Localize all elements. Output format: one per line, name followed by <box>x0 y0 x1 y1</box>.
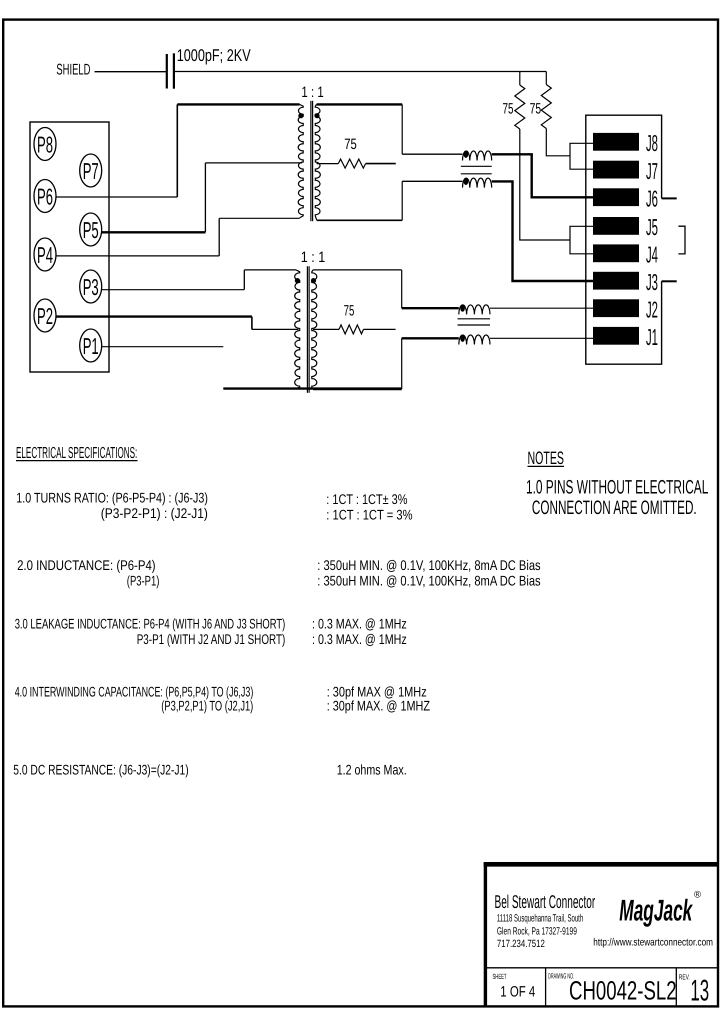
choke L1 core <box>461 166 492 174</box>
wire SHIELD-C1 <box>95 71 167 73</box>
svg-text:J1: J1 <box>646 324 658 350</box>
svg-text:1.0 PINS WITHOUT ELECTRICAL: 1.0 PINS WITHOUT ELECTRICAL <box>526 477 708 499</box>
svg-text:®: ® <box>694 890 701 901</box>
spec text line 8 <box>317 573 540 589</box>
heading NOTES <box>528 448 565 468</box>
wire P2 to T2 primary center tap <box>56 317 298 330</box>
wire P1 stub <box>102 346 224 348</box>
svg-text:J6: J6 <box>646 186 658 212</box>
svg-text:J5: J5 <box>646 214 658 240</box>
wire T1 secondary right edge bottom <box>401 181 403 220</box>
wire choke L1 top to J6 <box>492 154 593 197</box>
spec text line 15 <box>327 684 427 700</box>
svg-text:P7: P7 <box>83 158 99 184</box>
svg-text:(P3,P2,P1) TO (J2,J1): (P3,P2,P1) TO (J2,J1) <box>161 698 253 714</box>
pin J6 <box>593 186 658 212</box>
heading ELECTRICAL SPECIFICATIONS <box>16 445 138 462</box>
svg-text:P5: P5 <box>83 217 99 243</box>
field REV <box>679 973 709 1008</box>
wire T1 to choke L1 top <box>402 153 462 155</box>
pin J4 <box>593 242 658 268</box>
phone line <box>497 938 545 950</box>
svg-text:MagJack: MagJack <box>619 895 693 928</box>
pin P7 <box>80 154 102 187</box>
pin J5 <box>593 214 658 240</box>
svg-text:CH0042-SL2: CH0042-SL2 <box>569 975 677 1005</box>
pin P4 <box>34 238 56 271</box>
wire P3 to T2 primary top <box>102 270 296 290</box>
wire T2 secondary top <box>313 269 402 271</box>
svg-text:P2: P2 <box>37 303 53 329</box>
svg-text:2.0 INDUCTANCE: (P6-P4): 2.0 INDUCTANCE: (P6-P4) <box>17 557 156 573</box>
choke L1 top winding <box>463 151 492 161</box>
pin J7 <box>593 158 658 184</box>
svg-text:http://www.stewartconnector.co: http://www.stewartconnector.com <box>593 936 713 948</box>
spec text line 12 <box>312 631 407 647</box>
svg-text:1 OF 4: 1 OF 4 <box>500 983 535 1000</box>
note text line 1 <box>526 477 708 499</box>
choke L2 core <box>458 319 491 325</box>
pin P6 <box>34 180 56 213</box>
choke L2 top winding <box>459 305 490 315</box>
capacitor C1 <box>167 53 174 88</box>
wire R2 to bracket J8-J7 <box>546 129 570 156</box>
pin P1 <box>80 329 102 362</box>
title block frame <box>484 862 717 1006</box>
node SHIELD <box>56 62 90 79</box>
pin J8 <box>593 130 658 156</box>
wire J3 stub <box>662 280 677 282</box>
svg-text:P3-P1 (WITH J2 AND J1 SHORT): P3-P1 (WITH J2 AND J1 SHORT) <box>137 631 286 647</box>
value R1 75 <box>503 101 514 118</box>
spec text line 13 <box>15 684 254 700</box>
wire shield net to R1 R2 <box>174 71 547 73</box>
wire T1 secondary bottom <box>317 219 403 221</box>
resistor R3 75 (T1 secondary) <box>317 159 396 168</box>
svg-text:P8: P8 <box>37 131 53 157</box>
pin P3 <box>80 270 102 303</box>
svg-text:ELECTRICAL SPECIFICATIONS:: ELECTRICAL SPECIFICATIONS: <box>16 445 137 462</box>
connector J outline <box>586 115 662 364</box>
spec text line 5 <box>17 557 156 573</box>
svg-text:SHIELD: SHIELD <box>56 62 90 79</box>
transformer T1 ratio label 1 : 1 <box>301 84 323 101</box>
pin P2 <box>34 299 56 332</box>
svg-text:(P3-P1): (P3-P1) <box>127 573 160 589</box>
field DRAWING NO <box>548 972 677 1006</box>
pin J2 <box>593 297 658 323</box>
url <box>593 936 713 948</box>
transformer T2 <box>295 266 317 393</box>
spec text line 16 <box>327 698 431 714</box>
pin J1 <box>593 324 658 350</box>
spec text line 18 <box>337 762 407 778</box>
address line 1 <box>497 913 583 925</box>
spec text line 10 <box>137 631 286 647</box>
svg-text:J4: J4 <box>646 242 658 268</box>
svg-text:717.234.7512: 717.234.7512 <box>497 938 545 950</box>
spec text line 7 <box>317 557 540 573</box>
svg-text:: 1CT : 1CT = 3%: : 1CT : 1CT = 3% <box>326 507 412 523</box>
junction bracket J8 J7 <box>570 143 594 169</box>
resistor R2 75 <box>541 72 551 129</box>
svg-text:5.0 DC RESISTANCE: (J6-J3)=(J2: 5.0 DC RESISTANCE: (J6-J3)=(J2-J1) <box>13 762 188 778</box>
svg-text:J2: J2 <box>646 297 658 323</box>
spec text line 9 <box>15 616 286 632</box>
svg-text:1000pF; 2KV: 1000pF; 2KV <box>177 46 251 65</box>
wire T2 secondary right edge top <box>401 270 403 308</box>
spec text line 17 <box>13 762 188 778</box>
svg-text:75: 75 <box>344 302 355 319</box>
svg-text:: 0.3 MAX. @ 1MHz: : 0.3 MAX. @ 1MHz <box>312 616 407 632</box>
wire T1 secondary right edge top <box>401 104 403 154</box>
transformer T2 ratio label 1 : 1 <box>301 249 326 266</box>
spec text line 1 <box>16 490 208 506</box>
wire T2 secondary bottom <box>313 388 402 390</box>
svg-text:1.0 TURNS RATIO: (P6-P5-P4) :: 1.0 TURNS RATIO: (P6-P5-P4) : (J6-J3) <box>16 490 208 506</box>
wire R1 to bracket J5-J4 <box>520 129 570 240</box>
svg-text:P1: P1 <box>83 333 99 359</box>
svg-text:75: 75 <box>530 101 542 118</box>
svg-text:3.0 LEAKAGE INDUCTANCE: P6-P4: 3.0 LEAKAGE INDUCTANCE: P6-P4 (WITH J6 A… <box>15 616 286 632</box>
logo MagJack <box>619 890 701 928</box>
svg-text:11118 Susquehanna Trail, South: 11118 Susquehanna Trail, South <box>497 913 583 925</box>
value R3 75 <box>344 136 357 153</box>
svg-text:P3: P3 <box>83 274 99 300</box>
svg-text:J8: J8 <box>646 130 658 156</box>
choke L2 bottom winding <box>459 335 490 345</box>
wire P6 to T1 primary top <box>56 104 300 197</box>
address line 2 <box>497 926 577 938</box>
wire choke L2 bottom to J1 <box>490 337 593 339</box>
svg-text:NOTES: NOTES <box>528 448 565 468</box>
svg-text:: 0.3 MAX. @ 1MHz: : 0.3 MAX. @ 1MHz <box>312 631 407 647</box>
wire T2 to choke L2 top <box>402 307 459 309</box>
wire P4 to T1 primary bottom <box>56 218 300 256</box>
wire T1 secondary top <box>317 103 403 105</box>
note text line 2 <box>532 497 697 519</box>
junction bracket J5 J4 right <box>678 226 685 254</box>
choke L1 bottom winding <box>463 178 492 188</box>
junction bracket J5 J4 <box>570 226 594 254</box>
svg-text:75: 75 <box>344 136 357 153</box>
spec text line 4 <box>326 507 412 523</box>
svg-text:Bel Stewart Connector: Bel Stewart Connector <box>495 891 596 912</box>
svg-text:: 350uH MIN. @ 0.1V, 100KHz, 8: : 350uH MIN. @ 0.1V, 100KHz, 8mA DC Bias <box>317 573 540 589</box>
svg-text:P6: P6 <box>37 183 53 209</box>
svg-text:P4: P4 <box>37 242 53 268</box>
svg-text:Glen Rock, Pa 17327-9199: Glen Rock, Pa 17327-9199 <box>497 926 577 938</box>
svg-text:(P3-P2-P1) : (J2-J1): (P3-P2-P1) : (J2-J1) <box>101 505 208 521</box>
spec text line 3 <box>326 491 407 507</box>
svg-text:REV.: REV. <box>679 973 690 982</box>
resistor R4 75 (T2 secondary) <box>313 325 396 334</box>
svg-text:75: 75 <box>503 101 514 118</box>
svg-text:13: 13 <box>690 974 709 1007</box>
wire T1 to choke L1 bottom <box>402 180 462 182</box>
pin J3 <box>593 269 658 295</box>
wire P5 to T1 primary center tap <box>102 163 302 232</box>
P pin header box <box>30 122 109 372</box>
spec text line 6 <box>127 573 160 589</box>
wire choke L2 top to J2 <box>490 307 593 309</box>
company name Bel Stewart Connector <box>495 891 596 912</box>
svg-text:J3: J3 <box>646 269 658 295</box>
field SHEET <box>493 972 536 1000</box>
svg-text:1.2 ohms Max.: 1.2 ohms Max. <box>337 762 407 778</box>
wire choke L1 bottom to J3 <box>492 181 593 281</box>
value R2 75 <box>530 101 542 118</box>
svg-text:: 30pf MAX. @ 1MHZ: : 30pf MAX. @ 1MHZ <box>327 698 431 714</box>
svg-text:1 : 1: 1 : 1 <box>301 249 326 266</box>
spec text line 2 <box>101 505 208 521</box>
wire T2 to choke L2 bottom <box>402 337 459 339</box>
wire T2 primary bottom <box>223 387 401 389</box>
wire T2 secondary right edge bottom <box>401 338 403 389</box>
svg-text:: 1CT : 1CT± 3%: : 1CT : 1CT± 3% <box>326 491 407 507</box>
spec text line 14 <box>161 698 253 714</box>
spec text line 11 <box>312 616 407 632</box>
svg-text:CONNECTION ARE OMITTED.: CONNECTION ARE OMITTED. <box>532 497 697 519</box>
transformer T1 <box>298 101 320 221</box>
pin P8 <box>34 128 56 161</box>
pin P5 <box>80 213 102 246</box>
wire J6 stub <box>662 197 677 199</box>
svg-text:: 350uH MIN. @ 0.1V, 100KHz, 8: : 350uH MIN. @ 0.1V, 100KHz, 8mA DC Bias <box>317 557 540 573</box>
svg-text:J7: J7 <box>646 158 658 184</box>
svg-text:1 : 1: 1 : 1 <box>301 84 323 101</box>
value R4 75 <box>344 302 355 319</box>
value 1000pF; 2KV <box>177 46 251 65</box>
svg-text:SHEET: SHEET <box>493 972 507 981</box>
resistor R1 75 <box>515 72 525 129</box>
